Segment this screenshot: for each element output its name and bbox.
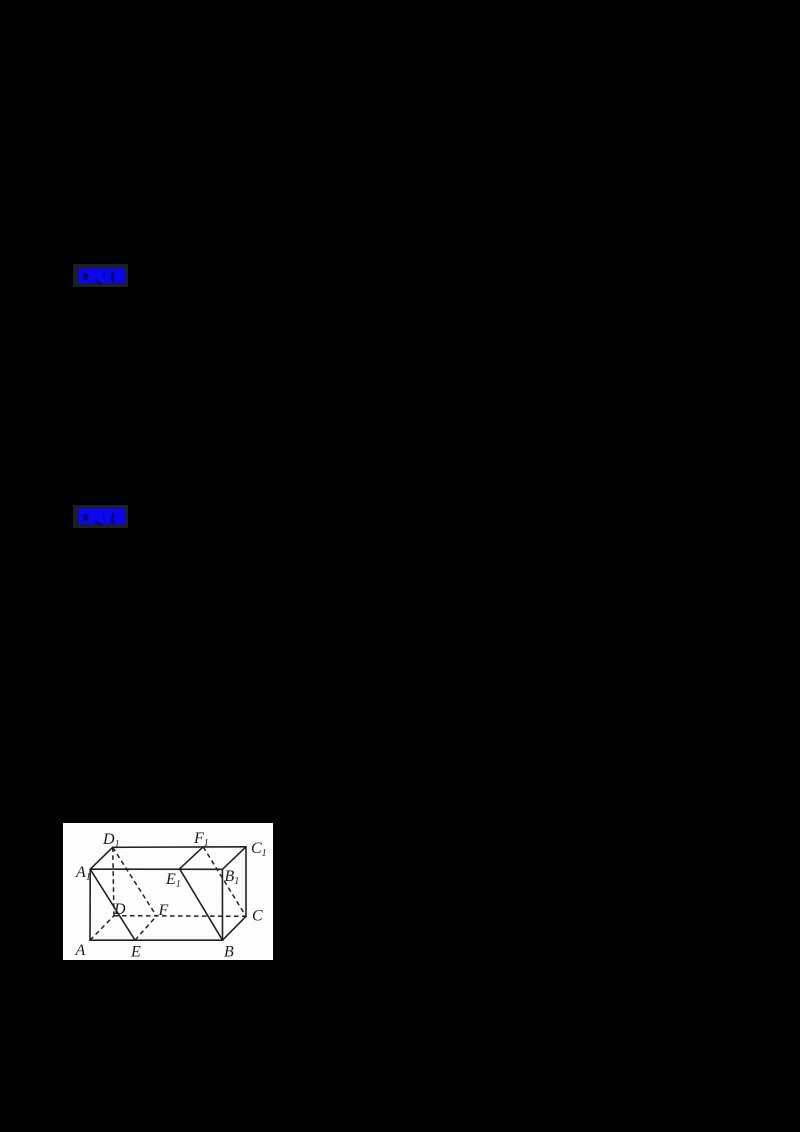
svg-text:A: A: [75, 942, 86, 959]
svg-text:B1: B1: [225, 868, 240, 887]
svg-text:D1: D1: [102, 831, 120, 850]
svg-text:C1: C1: [251, 840, 267, 859]
edge D1C1 (top back): [113, 846, 246, 849]
svg-text:E: E: [130, 944, 141, 961]
edge AA1 (left front vertical): [89, 869, 91, 940]
svg-text:C: C: [252, 908, 263, 925]
svg-text:E1: E1: [165, 871, 181, 890]
svg-text:A1: A1: [75, 864, 91, 883]
svg-text:F1: F1: [193, 830, 209, 849]
hidden edge DC (dashed horizontal): [114, 915, 246, 918]
edge A1B1 (top front): [90, 868, 222, 870]
blue badge 1 (例题 label): [73, 264, 128, 287]
blue badge 2 (例题 label): [73, 505, 128, 528]
svg-text:D: D: [113, 901, 126, 918]
hidden edge DD1 (dashed vertical): [113, 847, 114, 915]
segment EF (dashed cut line): [135, 916, 157, 940]
segment D1F (dashed cut line): [113, 847, 157, 916]
edge AB (bottom front): [90, 939, 223, 941]
svg-text:B: B: [224, 944, 234, 961]
segment F1C (dashed cut line): [203, 847, 246, 917]
edge A1D1: [90, 847, 113, 869]
edge BC: [223, 916, 247, 940]
svg-text:F: F: [158, 902, 169, 919]
edge CC1 (right back vertical): [245, 847, 247, 917]
white figure box: cuboid ABCD-A1B1C1D1 with points E,F,E1,F1: [63, 823, 273, 960]
edge BB1 (right front vertical): [221, 869, 223, 940]
segment A1E (solid cut line): [90, 869, 135, 940]
hidden edge AD (dashed): [90, 916, 114, 941]
segment E1F1 (solid, top face): [180, 847, 204, 869]
segment E1B (solid cut line): [180, 869, 223, 940]
edge B1C1: [222, 847, 246, 870]
